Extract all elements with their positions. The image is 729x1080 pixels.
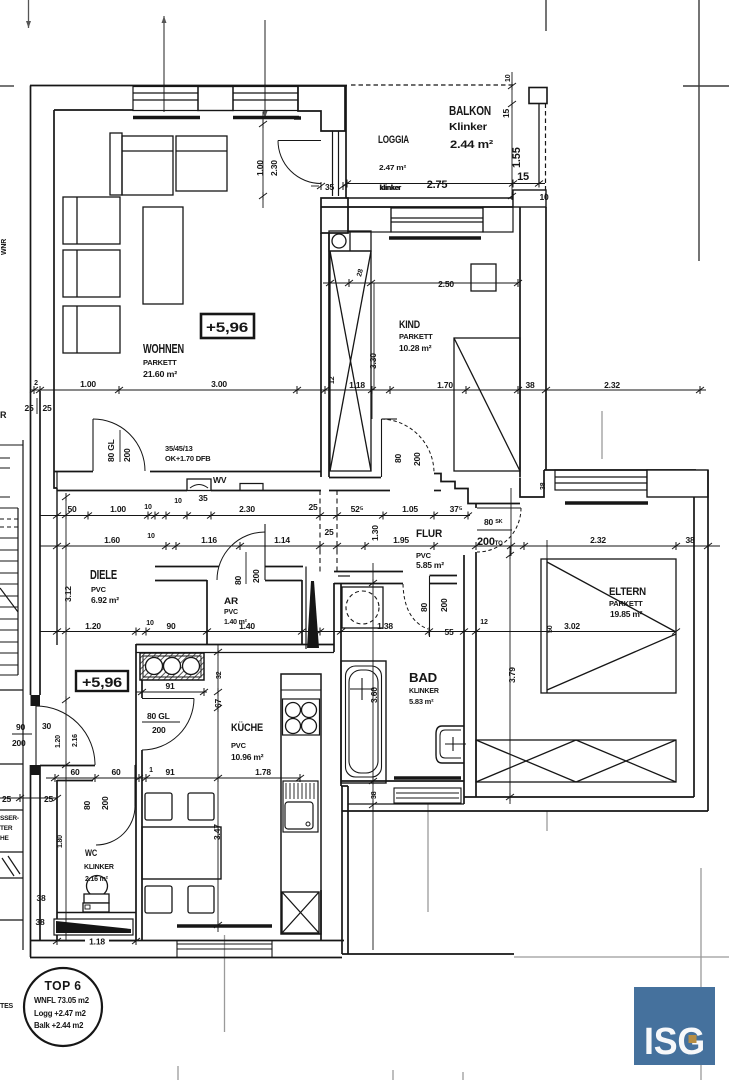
svg-text:10: 10 <box>174 498 182 505</box>
svg-text:91: 91 <box>165 681 175 691</box>
svg-text:2: 2 <box>34 380 38 387</box>
neighbour text fragments <box>0 239 19 1010</box>
vdim bad x373 <box>372 563 374 950</box>
wohnen south wall notch <box>240 484 263 491</box>
vdim kitchen x218 <box>217 645 219 932</box>
ticks eltern vdim <box>506 551 514 559</box>
top boundary short vertical at balcony axis <box>545 0 547 31</box>
washing machine bad <box>342 587 383 628</box>
window W1 bold sill <box>133 116 200 120</box>
dim line y390 full width <box>30 389 706 391</box>
svg-text:3.79: 3.79 <box>507 667 517 683</box>
eltern dresser with crosses <box>476 740 676 782</box>
dim line y778 <box>46 777 300 779</box>
wc north wall band <box>40 765 95 767</box>
neighbour window lines above <box>0 457 10 459</box>
svg-text:91: 91 <box>165 767 175 777</box>
svg-text:10.96 m²: 10.96 m² <box>231 752 264 762</box>
dim line loggia y183 <box>347 183 545 185</box>
stairwell treads <box>0 508 18 675</box>
svg-text:10: 10 <box>505 74 512 82</box>
vdim kind x374 <box>373 283 375 390</box>
svg-text:10.28 m²: 10.28 m² <box>399 343 432 353</box>
site line bottom horizontal <box>514 956 729 958</box>
ticks entry area <box>16 794 24 802</box>
ar door leaf <box>264 524 266 580</box>
svg-text:BALKON: BALKON <box>449 104 491 118</box>
svg-text:1.60: 1.60 <box>104 535 120 545</box>
level box diele +5,96 <box>76 671 128 691</box>
svg-text:25: 25 <box>2 794 12 804</box>
svg-text:PARKETT: PARKETT <box>609 599 643 608</box>
svg-text:TOP 6: TOP 6 <box>45 978 82 993</box>
dimension labels rotated <box>55 74 554 848</box>
svg-text:WOHNEN: WOHNEN <box>143 342 184 356</box>
ticks y546 <box>53 542 61 550</box>
svg-text:SSER-: SSER- <box>0 815 19 822</box>
loggia glass door frame lines <box>332 131 334 196</box>
wohnen south wall band <box>54 471 93 473</box>
kitchen south window lines <box>177 943 272 945</box>
svg-text:KLINKER: KLINKER <box>409 688 439 695</box>
kind door leaf <box>381 419 383 477</box>
svg-text:3.30: 3.30 <box>368 353 378 369</box>
svg-text:HE: HE <box>0 835 9 842</box>
svg-text:52⁵: 52⁵ <box>351 504 364 514</box>
outer wall left lower double <box>30 391 32 695</box>
svg-text:1.14: 1.14 <box>274 535 290 545</box>
svg-text:200: 200 <box>412 452 422 466</box>
ticks kind 2.50 <box>326 279 334 287</box>
sofa module left 3 <box>63 306 120 353</box>
sofa seat top B <box>176 136 227 191</box>
sofa module left 2 <box>63 250 120 297</box>
svg-text:2.44 m²: 2.44 m² <box>450 139 494 151</box>
svg-text:FLUR: FLUR <box>416 528 442 540</box>
svg-text:2.47 m²: 2.47 m² <box>379 165 407 172</box>
bad door swing arc dashed <box>403 584 428 629</box>
entry door leaf <box>35 706 37 765</box>
kitchen chair 2 <box>188 793 214 820</box>
ar door swing arc <box>217 532 265 580</box>
kitchen bold sill south <box>177 924 272 927</box>
svg-text:200: 200 <box>439 598 449 612</box>
svg-text:19.85 m²: 19.85 m² <box>610 609 643 619</box>
pier between windows <box>198 87 233 111</box>
kitchen sideboard hob hatched <box>140 653 204 680</box>
balcony corner post <box>529 88 547 104</box>
entry door swing arc <box>36 706 95 765</box>
ticks y390 <box>30 386 38 394</box>
kitchen door swing arc <box>142 699 194 751</box>
kind bold sill <box>389 236 481 239</box>
svg-text:BAD: BAD <box>409 671 437 685</box>
outer wall top: outer face <box>30 85 347 87</box>
vdim entry x66b <box>65 700 67 941</box>
svg-text:LOGGIA: LOGGIA <box>378 134 409 146</box>
bad south wall <box>341 780 464 782</box>
kind desk <box>471 264 496 291</box>
vdim balkon x512 <box>511 72 513 196</box>
svg-text:38: 38 <box>35 917 45 927</box>
svg-text:12: 12 <box>329 376 336 384</box>
dim line y545 <box>40 545 720 547</box>
bathtub <box>341 661 386 783</box>
kind window pier right <box>483 207 513 232</box>
dim line y631 <box>40 631 676 633</box>
svg-text:10: 10 <box>539 192 549 202</box>
svg-text:WC: WC <box>85 848 98 858</box>
south wall band wc+kitchen <box>30 940 344 942</box>
svg-text:35: 35 <box>198 493 208 503</box>
kind east wall double line <box>519 207 521 477</box>
svg-text:WNR: WNR <box>1 239 8 255</box>
window W1 wohnen glazing <box>133 87 198 111</box>
svg-text:PVC: PVC <box>91 585 107 594</box>
window sill stub left of partition <box>294 116 301 120</box>
room label wohnen <box>143 342 184 379</box>
top right boundary vertical <box>698 0 700 261</box>
svg-text:37⁵: 37⁵ <box>450 504 463 514</box>
shaft wedge black <box>307 581 319 648</box>
svg-text:5.83 m²: 5.83 m² <box>409 697 434 706</box>
site line below kitchen <box>224 935 226 1032</box>
svg-text:1.00: 1.00 <box>255 160 265 176</box>
svg-text:2.16 m²: 2.16 m² <box>85 876 109 883</box>
ticks bad vdim <box>369 579 377 587</box>
svg-text:2.30: 2.30 <box>269 160 279 176</box>
svg-text:80: 80 <box>233 575 243 585</box>
bad landing steps <box>394 788 461 803</box>
neighbour niche hatch <box>8 856 20 874</box>
dim line kind y283 <box>323 282 518 284</box>
svg-text:35/45/13: 35/45/13 <box>165 444 193 453</box>
svg-text:12: 12 <box>480 619 488 626</box>
svg-text:25: 25 <box>324 527 334 537</box>
wedge wall black bottom-left <box>57 912 136 914</box>
kind window glazing <box>391 208 483 232</box>
svg-text:3.02: 3.02 <box>564 621 580 631</box>
eltern bed <box>541 559 676 693</box>
loggia door leaf (into wohnen) <box>278 140 321 142</box>
top 6 info circle <box>24 968 102 1046</box>
dimension labels horizontal <box>2 171 695 947</box>
bad west wall double <box>333 583 335 652</box>
kind wardrobe tall <box>330 251 371 471</box>
svg-text:PVC: PVC <box>224 609 238 616</box>
ticks y515 <box>53 512 61 520</box>
kitchen table <box>142 827 221 879</box>
svg-text:2.30: 2.30 <box>239 504 255 514</box>
svg-text:38: 38 <box>36 893 46 903</box>
svg-text:3.00: 3.00 <box>211 379 227 389</box>
svg-text:TER: TER <box>0 825 13 832</box>
ext line eltern door <box>510 488 512 556</box>
neighbour wall vertical <box>22 440 24 950</box>
svg-text:80: 80 <box>419 602 429 612</box>
ticks kitchen vdim <box>214 648 222 656</box>
eltern ne corner block <box>647 470 708 497</box>
kitchen west wall double <box>135 644 137 940</box>
top wall inner face left segment <box>54 109 133 111</box>
svg-text:PVC: PVC <box>416 551 432 560</box>
window W2 bold sill <box>233 116 299 120</box>
svg-text:15: 15 <box>501 108 511 118</box>
svg-text:klinker: klinker <box>379 185 401 192</box>
kitchen door leaf 80GL <box>142 698 194 700</box>
svg-text:21.60 m²: 21.60 m² <box>143 369 177 379</box>
site line eltern below wall <box>546 811 548 831</box>
svg-text:1.78: 1.78 <box>255 767 271 777</box>
site line bottom-left short <box>177 1066 179 1080</box>
svg-text:15: 15 <box>517 171 529 183</box>
stair run diagonal <box>0 588 18 612</box>
ticks loggia <box>343 180 351 188</box>
wohnen/kind partition wall double line <box>320 233 322 477</box>
svg-text:10: 10 <box>147 533 155 540</box>
svg-text:Klinker: Klinker <box>449 121 487 133</box>
svg-text:80 GL: 80 GL <box>147 711 170 721</box>
svg-text:1.20: 1.20 <box>85 621 101 631</box>
svg-text:1.95: 1.95 <box>393 535 409 545</box>
wc toilet bowl <box>87 876 108 897</box>
svg-text:12: 12 <box>308 621 316 628</box>
svg-text:1.30: 1.30 <box>370 525 380 541</box>
svg-text:1.40: 1.40 <box>239 621 255 631</box>
svg-text:3.60: 3.60 <box>369 687 379 703</box>
bad washbasin <box>436 726 464 763</box>
svg-text:60: 60 <box>70 767 80 777</box>
kitchen chair 3 <box>145 886 172 913</box>
kitchen chair 1 <box>145 793 172 820</box>
dim line ar y692 <box>136 691 207 693</box>
kitchen counter east strip <box>281 674 321 934</box>
svg-text:1.20: 1.20 <box>55 735 62 748</box>
svg-text:WNFL 73.05 m2: WNFL 73.05 m2 <box>34 996 90 1005</box>
svg-text:80 GL: 80 GL <box>106 439 116 462</box>
svg-text:1.18: 1.18 <box>89 937 105 947</box>
svg-text:Balk +2.44 m2: Balk +2.44 m2 <box>34 1021 84 1030</box>
bathtub tap cross <box>350 688 374 690</box>
svg-text:PARKETT: PARKETT <box>143 358 177 367</box>
svg-text:2.32: 2.32 <box>590 535 606 545</box>
kitchen sink unit <box>283 781 318 832</box>
window W2 wohnen glazing <box>233 87 298 111</box>
svg-text:25: 25 <box>24 403 34 413</box>
svg-text:WV: WV <box>213 475 227 485</box>
svg-text:50: 50 <box>547 625 554 633</box>
svg-text:KÜCHE: KÜCHE <box>231 721 263 734</box>
svg-text:1.00: 1.00 <box>110 504 126 514</box>
balcony dashed outline right <box>545 104 547 197</box>
svg-text:TES: TES <box>0 1003 14 1010</box>
vdim eltern bed x547 <box>546 540 548 559</box>
svg-text:200: 200 <box>152 725 166 735</box>
svg-text:1.55: 1.55 <box>511 147 523 168</box>
eltern north wall outer <box>544 469 696 471</box>
svg-text:2.50: 2.50 <box>438 279 454 289</box>
level box wohnen +5,96 <box>201 314 254 338</box>
kitchen chair 4 <box>188 886 214 913</box>
dim line wc y941 in wall <box>57 940 136 942</box>
svg-text:10: 10 <box>144 504 152 511</box>
svg-text:30: 30 <box>42 721 52 731</box>
flur/eltern step top <box>520 478 534 498</box>
svg-text:2.75: 2.75 <box>427 179 448 191</box>
svg-text:1.05: 1.05 <box>402 504 418 514</box>
svg-text:200: 200 <box>12 738 26 748</box>
wc west wall inner <box>56 780 58 940</box>
svg-text:3.47: 3.47 <box>212 824 222 840</box>
svg-text:55: 55 <box>444 627 454 637</box>
svg-text:DIELE: DIELE <box>90 568 117 582</box>
wc door swing arc <box>96 806 135 845</box>
bad door leaf <box>429 576 431 637</box>
svg-text:60: 60 <box>111 767 121 777</box>
sofa corner piece <box>110 133 122 195</box>
wohnen door leaf 80GL <box>92 419 94 471</box>
ticks wohnen door vdim <box>259 120 267 128</box>
kitchen fridge X box <box>282 892 319 933</box>
kind corner cabinet with circle <box>329 231 371 251</box>
kind door swing arc dashed <box>382 419 435 473</box>
vdim left x66 <box>65 497 67 700</box>
eltern west wall double <box>475 504 477 509</box>
eltern window glazing <box>555 470 647 490</box>
site line below bad landing <box>427 803 429 912</box>
ticks y631 <box>53 628 61 636</box>
kitchen se corner wall <box>320 890 322 940</box>
svg-text:+5,96: +5,96 <box>82 675 123 690</box>
eltern south wall band <box>464 796 694 798</box>
bad bold threshold <box>394 776 461 779</box>
svg-text:38: 38 <box>540 482 547 490</box>
bad nw step <box>338 575 350 577</box>
svg-text:25: 25 <box>42 403 52 413</box>
ext line above eltern window <box>601 411 603 459</box>
svg-text:32: 32 <box>216 671 223 679</box>
wohnen/loggia partition upper block <box>298 86 345 131</box>
svg-text:3.12: 3.12 <box>63 586 73 602</box>
dim line y515 <box>40 515 470 517</box>
vdim wohnen-loggia door x263 <box>262 112 264 208</box>
svg-text:1.18: 1.18 <box>349 380 365 390</box>
window axis extension right <box>264 20 266 118</box>
top right boundary horizontal tick <box>683 85 729 87</box>
svg-text:67: 67 <box>213 698 223 708</box>
loggia south wall / kind north wall line <box>321 206 513 208</box>
svg-text:ELTERN: ELTERN <box>609 586 646 598</box>
wohnen/kind partition lower block <box>321 198 348 233</box>
ticks ar y692 <box>138 688 146 696</box>
flur north stepped wall <box>434 474 520 504</box>
svg-text:200: 200 <box>122 448 132 462</box>
svg-text:5.85 m²: 5.85 m² <box>416 560 444 570</box>
svg-text:PVC: PVC <box>231 741 247 750</box>
svg-text:25: 25 <box>44 794 54 804</box>
svg-text:1.80: 1.80 <box>57 835 64 848</box>
eltern nw wall piece <box>534 470 544 497</box>
svg-text:1.00: 1.00 <box>80 379 96 389</box>
neighbour partitions <box>0 689 23 691</box>
ar storage room walls <box>206 580 208 644</box>
svg-text:+5,96: +5,96 <box>206 320 249 335</box>
sofa module left 1 <box>63 197 120 244</box>
tick blob flur <box>36 398 38 414</box>
site line right vertical lower <box>700 868 702 1080</box>
kitchen north wall band <box>136 644 334 646</box>
eltern door swing arc dashed <box>477 508 521 552</box>
WV radiator box <box>187 479 211 491</box>
svg-text:2.32: 2.32 <box>604 380 620 390</box>
svg-text:200: 200 <box>251 569 261 583</box>
ticks y778 <box>51 774 59 782</box>
diele west wall line <box>54 471 57 488</box>
svg-text:PARKETT: PARKETT <box>399 332 433 341</box>
ticks left vdim <box>62 493 70 501</box>
svg-text:200: 200 <box>100 796 110 810</box>
neighbour apartment left strip <box>0 440 23 950</box>
ticks wc wall <box>53 937 61 945</box>
extension line kind door <box>371 390 373 419</box>
kind bed <box>454 338 520 471</box>
svg-text:OK+1.70 DFB: OK+1.70 DFB <box>165 454 211 463</box>
svg-text:80: 80 <box>82 800 92 810</box>
svg-text:2.16: 2.16 <box>72 734 79 747</box>
svg-text:38: 38 <box>525 380 535 390</box>
below-bad outer wall L <box>341 786 343 954</box>
bad north wall band <box>334 571 403 573</box>
eltern east wall double <box>693 497 695 797</box>
sofa seat top A <box>122 136 173 195</box>
svg-text:6.92 m²: 6.92 m² <box>91 595 119 605</box>
svg-text:90: 90 <box>166 621 176 631</box>
balcony dashed outline top <box>351 84 516 86</box>
svg-text:KIND: KIND <box>399 319 420 331</box>
coffee table wohnen <box>143 207 183 304</box>
svg-text:KLINKER: KLINKER <box>84 864 114 871</box>
svg-text:38: 38 <box>371 791 378 799</box>
svg-text:35: 35 <box>325 182 335 192</box>
flur shaft dashed lines <box>319 490 321 575</box>
eltern window bold sill <box>565 501 648 504</box>
svg-text:AR: AR <box>224 596 238 607</box>
svg-text:10: 10 <box>146 620 154 627</box>
window axis extension left <box>163 16 165 112</box>
svg-text:50: 50 <box>67 504 77 514</box>
outer wall left: outer face <box>30 86 32 392</box>
loggia door swing arc <box>278 141 321 184</box>
svg-text:1.16: 1.16 <box>201 535 217 545</box>
svg-text:25: 25 <box>308 502 318 512</box>
top left neighbour wall stub <box>0 85 14 87</box>
svg-text:R: R <box>0 410 7 420</box>
ISG logo <box>634 987 715 1065</box>
kind south wall band <box>329 477 381 479</box>
outer wall left: inner face wohnen <box>53 110 55 471</box>
kind window recess band left part <box>348 207 391 232</box>
balcony inner edge line <box>538 104 540 184</box>
svg-text:90: 90 <box>16 722 26 732</box>
wohnen door swing arc <box>93 419 145 471</box>
svg-text:38: 38 <box>685 535 695 545</box>
kind east wall block top <box>513 190 546 207</box>
kitchen hob 4 plates <box>283 699 320 735</box>
svg-text:1.38: 1.38 <box>377 621 393 631</box>
loggia west wall face <box>345 86 347 198</box>
svg-text:Logg +2.47 m2: Logg +2.47 m2 <box>34 1009 87 1018</box>
eltern door leaf <box>477 507 521 509</box>
